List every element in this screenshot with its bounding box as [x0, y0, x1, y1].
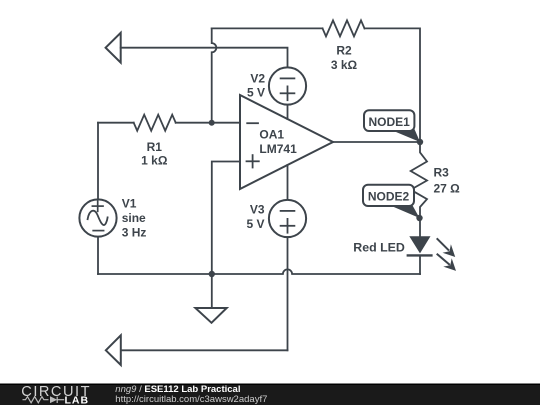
svg-text:V2: V2 — [250, 72, 265, 86]
svg-text:sine: sine — [122, 211, 146, 225]
svg-text:3 Hz: 3 Hz — [122, 226, 147, 240]
svg-text:LAB: LAB — [65, 395, 90, 406]
svg-text:OA1: OA1 — [259, 128, 284, 142]
svg-text:R3: R3 — [434, 166, 450, 180]
svg-text:R2: R2 — [336, 44, 352, 58]
svg-text:LM741: LM741 — [259, 142, 297, 156]
svg-text:1 kΩ: 1 kΩ — [141, 154, 168, 168]
svg-text:V1: V1 — [122, 197, 137, 211]
svg-text:3 kΩ: 3 kΩ — [331, 58, 358, 72]
svg-text:Red LED: Red LED — [353, 241, 405, 255]
svg-text:NODE2: NODE2 — [368, 189, 410, 203]
svg-text:NODE1: NODE1 — [369, 115, 411, 129]
svg-text:V3: V3 — [250, 203, 265, 217]
svg-text:R1: R1 — [147, 140, 163, 154]
svg-text:5 V: 5 V — [246, 217, 264, 231]
svg-text:5 V: 5 V — [247, 86, 265, 100]
svg-text:http://circuitlab.com/c3awsw2a: http://circuitlab.com/c3awsw2adayf7 — [115, 394, 267, 405]
svg-text:27 Ω: 27 Ω — [434, 181, 461, 195]
